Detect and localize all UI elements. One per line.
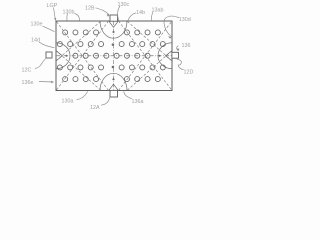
svg-text:130e: 130e <box>31 22 43 28</box>
svg-text:14d: 14d <box>31 37 40 43</box>
svg-text:12C: 12C <box>22 68 32 74</box>
svg-text:LGP: LGP <box>47 3 58 9</box>
svg-text:136e: 136e <box>22 80 34 86</box>
svg-text:136: 136 <box>182 43 191 49</box>
svg-text:14b: 14b <box>136 10 145 16</box>
svg-text:130c: 130c <box>118 2 130 8</box>
svg-text:13ab: 13ab <box>152 8 164 14</box>
svg-text:12A: 12A <box>90 105 100 111</box>
svg-text:130b: 130b <box>63 10 75 16</box>
svg-text:130d: 130d <box>179 17 191 23</box>
svg-text:12D: 12D <box>184 70 194 76</box>
svg-text:130a: 130a <box>62 99 74 105</box>
svg-text:12B: 12B <box>85 5 95 11</box>
svg-text:136a: 136a <box>132 99 144 105</box>
